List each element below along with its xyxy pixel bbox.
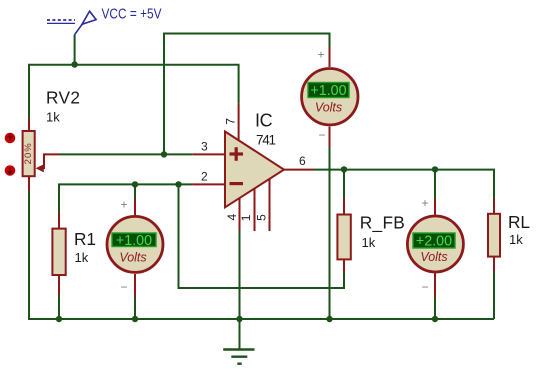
svg-text:3: 3 bbox=[201, 140, 208, 154]
svg-text:Volts: Volts bbox=[420, 250, 447, 264]
svg-text:RL: RL bbox=[508, 212, 530, 232]
svg-text:1k: 1k bbox=[75, 250, 89, 265]
svg-text:6: 6 bbox=[299, 154, 306, 168]
svg-text:20%: 20% bbox=[23, 143, 34, 165]
svg-text:7: 7 bbox=[224, 118, 238, 125]
svg-text:741: 741 bbox=[256, 133, 276, 148]
svg-text:+: + bbox=[421, 196, 428, 210]
svg-text:−: − bbox=[120, 280, 127, 294]
svg-text:+1.00: +1.00 bbox=[116, 233, 152, 249]
svg-text:Volts: Volts bbox=[315, 101, 342, 115]
svg-text:1: 1 bbox=[239, 214, 253, 221]
svg-text:1k: 1k bbox=[362, 235, 376, 250]
svg-text:R_FB: R_FB bbox=[360, 212, 405, 232]
svg-text:+2.00: +2.00 bbox=[416, 234, 452, 250]
svg-text:VCC = +5V: VCC = +5V bbox=[102, 6, 162, 22]
svg-text:−: − bbox=[421, 280, 428, 294]
svg-text:2: 2 bbox=[201, 170, 208, 184]
svg-text:+: + bbox=[317, 48, 324, 62]
svg-text:−: − bbox=[318, 128, 325, 142]
svg-text:R1: R1 bbox=[74, 229, 96, 249]
svg-text:1k: 1k bbox=[509, 232, 523, 247]
svg-text:5: 5 bbox=[255, 214, 269, 221]
svg-text:Volts: Volts bbox=[119, 251, 146, 265]
svg-text:+1.00: +1.00 bbox=[310, 83, 346, 99]
svg-text:IC: IC bbox=[255, 110, 273, 130]
svg-text:+: + bbox=[120, 198, 127, 212]
svg-text:RV2: RV2 bbox=[46, 88, 80, 108]
svg-text:1k: 1k bbox=[46, 110, 60, 125]
svg-text:4: 4 bbox=[225, 214, 239, 221]
